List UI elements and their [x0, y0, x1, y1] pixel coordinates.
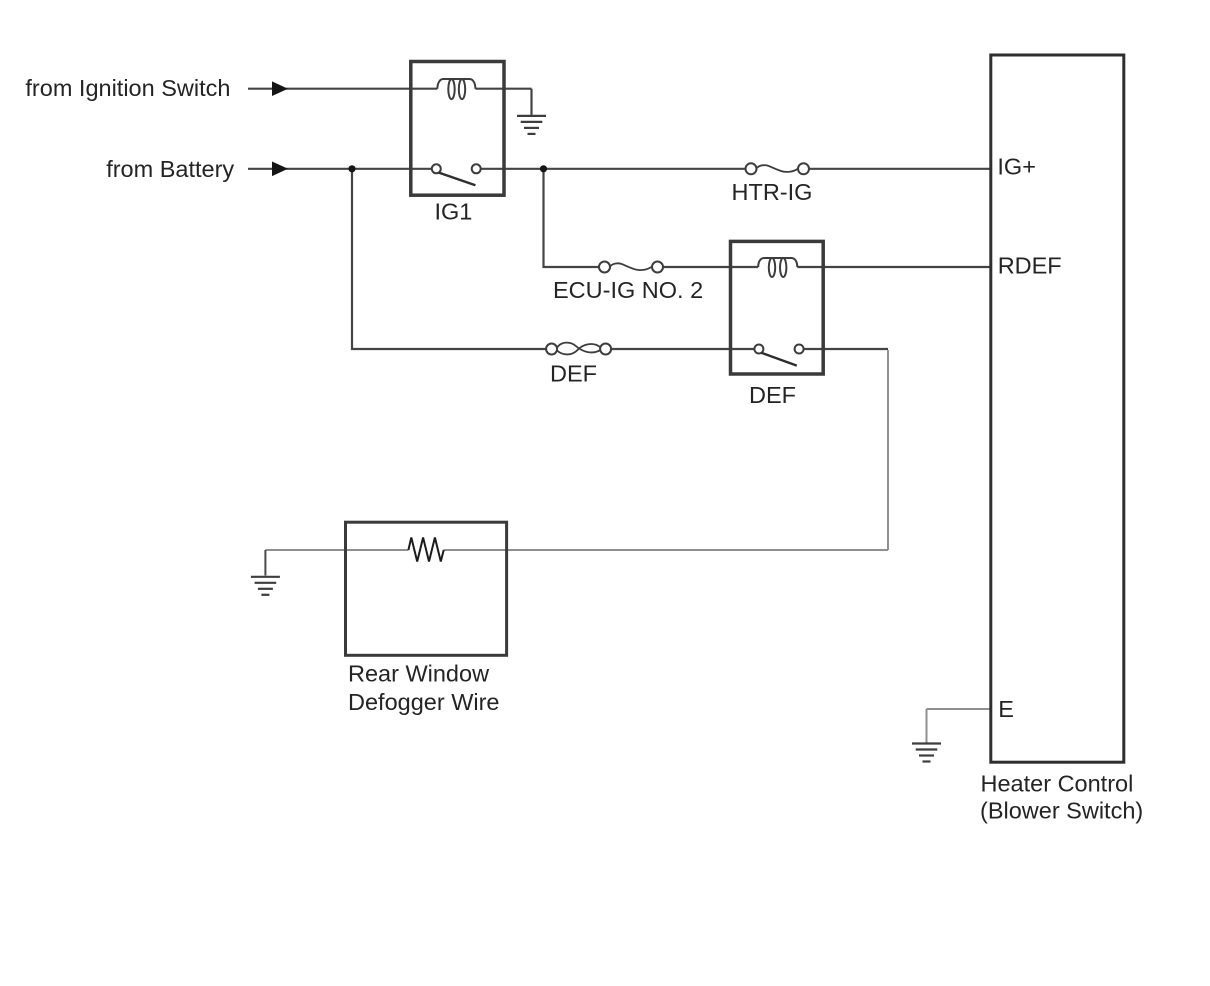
svg-text:Rear Window: Rear Window — [348, 661, 490, 687]
svg-text:DEF: DEF — [550, 361, 597, 387]
svg-text:from Battery: from Battery — [106, 156, 234, 182]
svg-text:HTR-IG: HTR-IG — [732, 179, 813, 205]
svg-text:Heater Control: Heater Control — [981, 771, 1134, 797]
svg-text:IG+: IG+ — [997, 153, 1036, 179]
svg-text:DEF: DEF — [749, 382, 796, 408]
svg-text:E: E — [998, 696, 1014, 722]
svg-text:Defogger Wire: Defogger Wire — [348, 689, 500, 715]
svg-text:(Blower Switch): (Blower Switch) — [980, 797, 1143, 823]
svg-text:ECU-IG NO. 2: ECU-IG NO. 2 — [553, 277, 703, 303]
svg-text:from Ignition Switch: from Ignition Switch — [25, 75, 230, 101]
svg-text:RDEF: RDEF — [998, 252, 1062, 278]
svg-text:IG1: IG1 — [435, 199, 473, 225]
